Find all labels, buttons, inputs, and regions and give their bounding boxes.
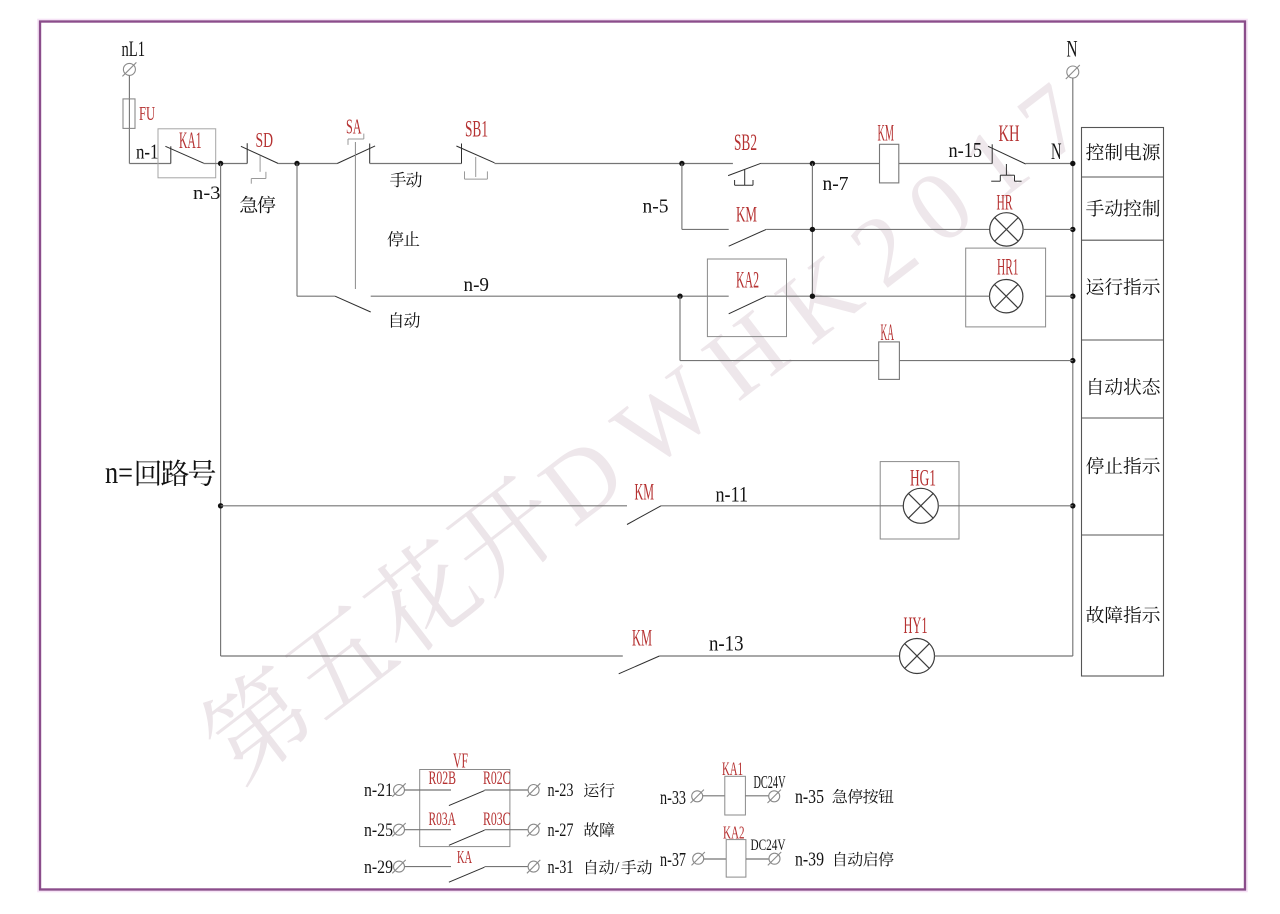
wire SA to SB1	[370, 163, 462, 165]
svg-text:DC24V: DC24V	[751, 837, 786, 854]
label 故障	[584, 822, 615, 837]
svg-text:HG1: HG1	[910, 466, 936, 491]
label 自动/手动	[586, 858, 652, 877]
function table frame	[1082, 128, 1164, 677]
terminal n-23	[527, 783, 540, 796]
wire SB1 to SB2	[495, 163, 733, 165]
svg-text:nL1: nL1	[122, 36, 146, 61]
svg-text:n=: n=	[105, 454, 133, 490]
pushbutton SB2	[728, 163, 761, 185]
table row line 2	[1082, 239, 1164, 241]
svg-text:KM: KM	[736, 202, 757, 227]
wire inside HR1 box left	[966, 295, 990, 297]
svg-text:R03C: R03C	[483, 809, 511, 830]
wire SB2 to KM coil	[761, 163, 880, 165]
wire n-21 to R02B	[405, 789, 452, 791]
lamp HY1	[900, 639, 935, 674]
svg-text:n-21: n-21	[364, 780, 393, 801]
terminal nL1	[122, 62, 136, 76]
terminal n-27	[527, 823, 540, 836]
wire to KA coil	[680, 360, 879, 362]
junction bus row1	[1070, 161, 1075, 166]
svg-text:N: N	[1067, 37, 1078, 62]
junction row3 n-7	[810, 294, 815, 299]
svg-text:n-23: n-23	[548, 780, 574, 801]
relay coil KA1	[725, 776, 746, 815]
lamp HR1	[990, 280, 1023, 313]
svg-text:n-31: n-31	[548, 857, 574, 878]
terminal n-35	[768, 790, 781, 803]
wire KA2 to HR1	[766, 295, 966, 297]
svg-text:n-13: n-13	[709, 631, 744, 656]
junction bus row3	[1070, 294, 1075, 299]
label 停止	[388, 231, 420, 247]
table row line 1	[1082, 176, 1164, 178]
wire HR to bus	[1023, 228, 1073, 230]
wire n-25 to R03A	[405, 829, 452, 831]
svg-text:HY1: HY1	[904, 613, 928, 638]
wire KM contact to HR	[766, 228, 990, 230]
wire n-7 vertical	[811, 164, 813, 297]
aux contact KM row2	[729, 229, 767, 246]
junction left of KA2	[677, 294, 682, 299]
svg-text:KH: KH	[999, 121, 1020, 146]
emergency stop SD	[241, 143, 278, 184]
terminal n-31	[527, 860, 540, 873]
table row line 4	[1082, 417, 1164, 419]
junction after SD	[294, 161, 299, 166]
wire n-5 corner to KM contact	[682, 228, 729, 230]
relay box KA2	[707, 259, 786, 337]
svg-text:KA: KA	[881, 320, 895, 345]
terminal n-21	[392, 783, 405, 796]
pushbutton SB1	[456, 144, 494, 180]
selector SA auto contact	[297, 296, 371, 312]
svg-text:KA: KA	[457, 847, 472, 867]
selector SA link stem	[354, 142, 356, 289]
wire inside HG1 left	[880, 505, 903, 507]
svg-text:KM: KM	[632, 626, 652, 651]
label 自动	[391, 312, 420, 328]
svg-text:n-11: n-11	[716, 482, 749, 507]
relay contact box KA1	[158, 129, 216, 178]
terminal n-29	[392, 860, 405, 873]
contact R03	[449, 830, 485, 845]
wire HG1 to bus	[938, 505, 1073, 507]
svg-text:n-29: n-29	[364, 857, 393, 878]
label 自动启停	[835, 852, 894, 867]
wire left bus vertical	[220, 164, 222, 657]
junction n-5	[679, 161, 684, 166]
wire R02C to n-23	[485, 789, 529, 791]
svg-text:KA1: KA1	[179, 128, 202, 154]
table row line 3	[1082, 339, 1164, 341]
label 运行	[584, 783, 615, 798]
wire FU corner to KA1	[129, 163, 170, 165]
wire n-37 to KA2 coil	[704, 858, 727, 860]
svg-text:n-5: n-5	[643, 196, 669, 218]
svg-text:N: N	[1051, 139, 1062, 164]
svg-text:HR: HR	[997, 190, 1013, 215]
wire n-9	[371, 295, 708, 297]
contactor coil KM	[880, 144, 899, 183]
lamp HG1	[903, 488, 938, 523]
svg-text:SA: SA	[346, 115, 362, 139]
wire N bus vertical	[1072, 78, 1074, 656]
svg-text:KM: KM	[878, 121, 895, 146]
junction bus row4	[1070, 358, 1075, 363]
svg-text:n-3: n-3	[193, 183, 221, 204]
svg-text:SB2: SB2	[734, 130, 757, 155]
junction n-3	[218, 161, 223, 166]
svg-text:n-9: n-9	[464, 274, 490, 296]
label 停止指示	[1086, 457, 1160, 474]
terminal n-39	[768, 852, 781, 865]
wire down to KA line	[679, 296, 681, 360]
inverter box VF	[420, 770, 510, 847]
label 运行指示	[1086, 278, 1159, 295]
svg-text:n-39: n-39	[795, 849, 824, 871]
svg-text:KA2: KA2	[736, 268, 759, 293]
wire n-29 to KA contact	[405, 866, 452, 868]
relay coil KA	[879, 342, 900, 380]
label 故障指示	[1086, 606, 1159, 623]
relay contact KA1	[165, 146, 204, 163]
label 控制电源	[1086, 143, 1160, 160]
label 急停	[240, 196, 275, 214]
svg-text:R02C: R02C	[483, 768, 511, 789]
wire R03C to n-27	[485, 829, 529, 831]
fuse FU	[123, 99, 135, 128]
wire KA1 to n-35	[745, 795, 768, 797]
svg-text:DC24V: DC24V	[754, 772, 786, 792]
selector switch SA manual contact	[337, 134, 375, 164]
terminal n-37	[692, 852, 705, 865]
contact KA bottom	[449, 867, 485, 882]
svg-text:n-33: n-33	[660, 787, 686, 809]
svg-text:R02B: R02B	[429, 768, 457, 789]
aux contact KM row5	[627, 506, 661, 525]
thermal relay contact KH	[988, 144, 1026, 181]
watermark 第五花开DWHK2017	[189, 50, 1121, 801]
wire KA1 to SD	[204, 163, 247, 165]
aux contact KM row6	[619, 656, 660, 674]
svg-text:FU: FU	[139, 103, 155, 125]
svg-text:n-1: n-1	[136, 142, 159, 164]
svg-text:SD: SD	[256, 130, 274, 152]
wire KM to HG1	[661, 505, 880, 507]
junction n-7	[810, 161, 815, 166]
wire KA2 to n-39	[746, 858, 769, 860]
wire KA to bus	[899, 360, 1072, 362]
lamp box HG1	[880, 462, 959, 539]
junction row2 n-7	[810, 227, 815, 232]
wire KM to HY1	[659, 655, 899, 657]
wire nL1 to FU	[128, 76, 130, 164]
svg-text:n-7: n-7	[823, 173, 849, 195]
wire to KM contact row5	[221, 505, 627, 507]
svg-text:n-37: n-37	[660, 849, 686, 871]
terminal N	[1066, 65, 1080, 79]
svg-text:HR1: HR1	[997, 255, 1019, 280]
junction bus row5	[1070, 503, 1075, 508]
label 自动状态	[1089, 378, 1159, 395]
svg-text:SB1: SB1	[465, 117, 488, 142]
junction bus row2	[1070, 227, 1075, 232]
label 手动控制	[1086, 199, 1159, 216]
wire HY1 to bus	[935, 655, 1073, 657]
fuse wire through	[128, 99, 130, 128]
wire KH to bus	[1026, 163, 1073, 165]
junction left bus row5	[218, 503, 223, 508]
relay contact KA2	[729, 296, 767, 314]
wire SD to node	[278, 163, 337, 165]
wire n-33 to KA1 coil	[703, 795, 725, 797]
note n=回路号	[105, 454, 215, 490]
svg-text:n-25: n-25	[364, 820, 393, 841]
lamp box HR1	[966, 248, 1046, 327]
table row line 5	[1082, 534, 1164, 536]
terminal n-33	[691, 790, 704, 803]
svg-text:n-35: n-35	[795, 786, 824, 808]
lamp HR	[990, 213, 1023, 246]
contact R02	[449, 791, 485, 806]
svg-text:/: /	[615, 858, 620, 877]
label 手动	[390, 172, 422, 188]
label 急停按钮	[833, 789, 894, 804]
svg-text:R03A: R03A	[429, 809, 457, 830]
wire down to auto line	[296, 164, 298, 297]
terminal n-25	[392, 823, 405, 836]
wire KA to n-31	[485, 866, 529, 868]
svg-text:KM: KM	[635, 480, 655, 505]
wire KM to KH	[899, 163, 992, 165]
svg-text:n-15: n-15	[949, 138, 983, 162]
wire HR1 to bus	[1046, 295, 1073, 297]
svg-text:n-27: n-27	[548, 820, 574, 841]
wire into KA2	[707, 295, 728, 297]
wire n-5 vertical	[681, 164, 683, 230]
relay coil KA2	[726, 840, 746, 878]
wire to KM contact row6	[221, 655, 623, 657]
